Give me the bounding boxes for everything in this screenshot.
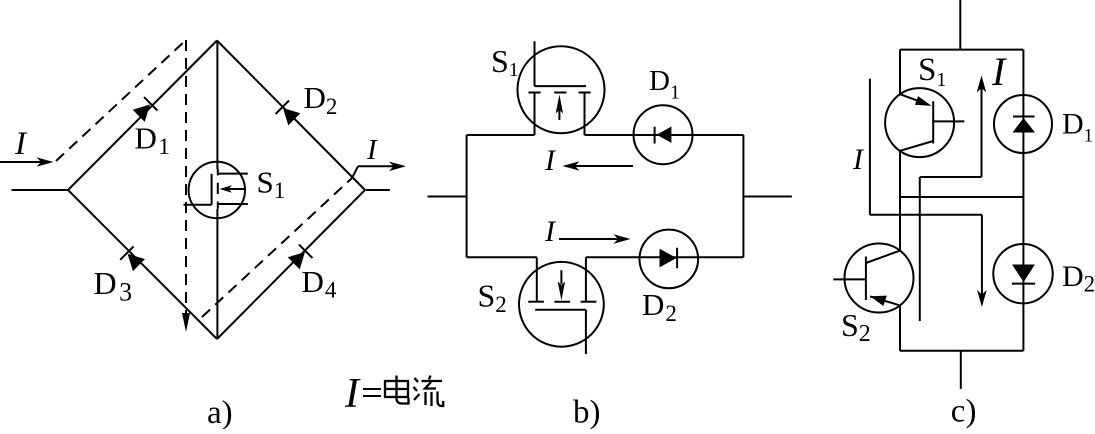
diode D1 (points left) <box>655 127 672 144</box>
transistor S1 base bar <box>932 101 934 143</box>
svg-text:a): a) <box>207 395 233 429</box>
wire: top rail left segment <box>467 134 535 136</box>
wire: crossover vertical drop <box>919 177 921 321</box>
transistor S2 collector <box>866 251 900 263</box>
MOSFET S1 body arrow <box>220 185 247 193</box>
wire: top lead <box>959 0 961 50</box>
svg-text:I: I <box>14 126 28 162</box>
svg-text:b): b) <box>573 395 601 430</box>
MOSFET S1 drain stub <box>218 173 248 175</box>
MOSFET S2 left leg <box>536 257 538 301</box>
wire: diamond edge bottom-to-left <box>68 190 217 339</box>
MOSFET S1 gate bar <box>535 85 587 87</box>
wire: top rail <box>900 49 1023 51</box>
MOSFET S1 left leg <box>534 93 536 136</box>
wire: left input lead <box>12 189 69 191</box>
wire: left I branch horizontal <box>870 214 982 216</box>
current arrow I (down) <box>977 215 987 307</box>
transistor S1 emitter (arrow into base) <box>900 94 932 106</box>
MOSFET S2 gate bar <box>535 309 586 311</box>
wire: left side <box>466 135 468 257</box>
MOSFET S1 channel (dashed bar) <box>217 169 219 176</box>
MOSFET S2 body circle <box>519 262 604 347</box>
svg-text:I: I <box>991 49 1007 94</box>
current arrow I (lower, rightward) <box>559 234 631 244</box>
wire: bottom rail right segment <box>586 256 744 258</box>
MOSFET S2 gate lead <box>585 310 587 354</box>
current arrow I (right output) <box>358 162 406 172</box>
wire: left side middle (S1 collector to S2 collector) <box>899 151 901 251</box>
wire: left I branch vertical <box>869 79 871 215</box>
wire: right lead <box>743 196 792 198</box>
MOSFET S1 gate bar <box>211 174 213 205</box>
MOSFET S1 gate lead <box>184 204 212 206</box>
wire: right output lead <box>366 189 390 191</box>
dashed current path: vertical through switch <box>185 40 187 316</box>
wire: top rail right segment <box>585 134 744 136</box>
wire: left lead <box>428 196 467 198</box>
diode D1 circle <box>994 95 1052 153</box>
MOSFET S1 channel (broken bar) <box>529 92 541 94</box>
MOSFET S1 right leg <box>584 93 586 136</box>
diode D2 (points down) <box>1012 265 1035 284</box>
hanzi DIAN (electric) drawn as strokes <box>385 376 409 404</box>
wire: diamond edge top-to-right <box>217 41 365 191</box>
wire: bottom rail <box>900 350 1023 352</box>
wire: left side lower (S2 emitter to bottom rail) <box>899 305 901 350</box>
current arrow I (upper, leftward) <box>563 161 634 171</box>
diode D2 (points right) <box>660 248 678 268</box>
wire: crossover horizontal (upper) <box>920 176 982 178</box>
wire: left side upper (to S1 emitter) <box>899 50 901 95</box>
svg-text:c): c) <box>951 394 977 430</box>
diode D1 circle <box>634 105 693 164</box>
wire: diamond edge left-to-top <box>68 41 217 191</box>
diode D2 circle <box>640 230 699 289</box>
transistor S2 base bar <box>865 257 867 301</box>
transistor S2 emitter (arrow into base) <box>870 296 900 306</box>
wire: right side <box>1022 50 1024 351</box>
MOSFET S2 channel (broken bar) <box>528 301 544 303</box>
wire: bottom lead <box>960 351 962 389</box>
hanzi LIU (flow) drawn as strokes <box>414 376 444 407</box>
MOSFET S1 gate lead <box>534 41 536 86</box>
svg-text:I: I <box>344 371 361 417</box>
MOSFET S2 right leg <box>585 257 587 301</box>
wire: jog to right output arrow <box>352 166 358 178</box>
MOSFET S1 body circle <box>518 46 605 133</box>
transistor S1 body circle <box>885 88 954 157</box>
transistor S2 body circle <box>845 244 914 313</box>
dashed current path arrowhead (downward) <box>182 313 190 332</box>
MOSFET S1 source stub <box>218 203 248 205</box>
transistor S1 collector <box>900 141 933 151</box>
svg-text:I: I <box>366 134 378 166</box>
transistor S2 base lead <box>833 278 866 280</box>
current arrow I (left input) <box>0 157 54 167</box>
diode D1 (points up) <box>1013 117 1036 133</box>
wire: center vertical (top vertex to MOSFET drain) <box>216 41 218 170</box>
wire: bottom rail left segment <box>467 256 537 258</box>
MOSFET S1 body arrow (up) <box>556 95 563 121</box>
wire: center vertical (MOSFET source to bottom vertex) <box>216 209 218 339</box>
MOSFET S1 body circle <box>189 162 245 218</box>
diode D3 (bottom-left arm) <box>120 246 145 271</box>
wire: middle rail <box>900 196 1023 198</box>
diode D1 (top-left arm) <box>132 97 157 122</box>
diode D4 (bottom-right arm) <box>287 245 312 270</box>
dashed current path: diagonal along D1 arm <box>56 40 186 161</box>
transistor S1 base lead <box>933 120 964 122</box>
wire: right side <box>742 135 744 257</box>
diode D2 (top-right arm) <box>276 101 301 126</box>
wire: diamond edge right-to-bottom <box>217 190 365 339</box>
diode D2 circle <box>993 244 1052 303</box>
equals sign <box>363 388 381 390</box>
MOSFET S2 body arrow (down) <box>558 270 565 300</box>
dashed current path: diagonal along D4 arm <box>202 178 352 317</box>
current arrow I (up) with wire to crossover <box>977 76 987 178</box>
